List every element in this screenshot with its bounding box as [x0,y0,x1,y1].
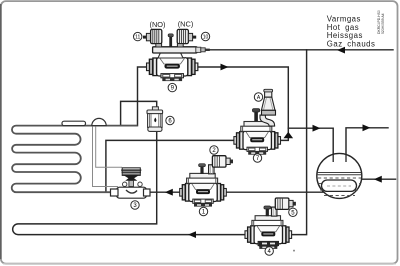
main valve 1 (with EVM pilot 2) [180,156,233,207]
valve 7 stem [254,111,258,121]
ref 5 [289,208,297,216]
wire: junction to tank top-left inlet [288,128,333,162]
arrow: valve 7 outlet up [284,132,294,138]
svg-text:(NC): (NC) [178,19,194,28]
wire: tank right-side inlet from right edge [357,178,396,180]
TEV 3 right flange [144,189,151,196]
arrow: to tank inlet right [313,125,321,132]
wire: hot gas supply line (top, right edge to valve 9 pilot fitting) [210,49,394,51]
wire: tank second top pipe up and right to edge (suction out) [346,128,388,162]
ref 3 [131,201,139,209]
TEV 3 left flange [111,189,119,196]
liquid level lines [317,173,361,175]
valve 9 neck [158,53,183,58]
svg-text:10: 10 [203,35,209,41]
U-tube heat exchanger inside tank [322,180,357,191]
filter sight glass dot [154,118,156,123]
CVP pilot on valve 7 [260,89,276,126]
arrow: suction out right (top of tank) [363,124,371,131]
ref 4 [265,247,273,255]
solenoid pilot 11 (NO) [143,29,162,47]
evaporator coil serpentine [12,126,138,193]
svg-text:520H0559 A4: 520H0559 A4 [381,13,385,34]
ref 1 [199,207,207,215]
ref 2 [210,146,218,154]
TEV 3 thermostatic head (striped) [121,168,141,176]
equalizer line to TEV body (grey) [93,126,119,187]
valve 4 dark bottom [259,241,278,247]
arrow: TEV feed pointing left [165,189,173,196]
ref 10 [201,32,209,40]
wire: hot gas branch down to valve 4 (vertical x=306.6) [290,50,307,235]
wire: valve 9 outlet right then down to junction [194,67,289,128]
wire: branch from suction line up over to filter 6 top [121,101,157,125]
solenoid pilot 10 (NC) [177,29,196,47]
wire: valve 7 left port line going left then down to coil feed line [106,140,235,192]
ref 7 [253,154,261,162]
wire: TEV 3 outlet line to valve 1 left port [148,191,180,193]
ref 11 [134,32,142,40]
ref 9 [168,83,176,91]
scan speck artifact [293,250,295,252]
TEV 3 body [117,187,147,198]
arrow: hot gas flow left (top right) [337,47,345,54]
main valve 9 (hot gas valve with twin pilots) [143,29,210,81]
tank vessel circle [317,153,362,198]
svg-text:11: 11 [135,35,140,41]
valve 9 center stem [169,36,172,46]
sensor bulb dome on suction line [92,118,106,125]
svg-text:Gaz chauds: Gaz chauds [327,39,376,48]
filter F6 body [152,107,158,111]
arrow: suction return pointing left (bottom line) [188,231,196,238]
arrow: tank right inlet pointing left [374,176,382,183]
svg-text:(NO): (NO) [149,20,165,29]
arrow: valve 9 outlet right [221,64,229,71]
drawing number (vertical tiny text) [377,10,385,34]
ref A [254,93,262,101]
wire: valve 7 outlet up to junction [280,128,288,140]
valve 9 external pilot fitting [196,47,201,52]
cap fitting on suction line [62,121,86,125]
tank top pipes inside [333,154,346,162]
capillary line to TEV head (grey) [96,126,122,167]
liquid dashes [318,178,361,196]
valve 9 pilot manifold bar [153,47,197,53]
wire: suction line from coil up to valve 9 left port [121,67,147,126]
wire: valve 1 outlet right into tank U-tube [226,191,325,193]
main valve 4 (with EVM pilot 5) [245,198,296,249]
wire: filter 6 bottom down, left, U-turn at far left, back right to valve 4 [13,131,247,235]
TEV 3 bowtie diaphragm [124,175,139,180]
main valve 7 (with CVP pilot A) [234,89,281,154]
ref 6 [166,116,174,124]
TEV 3 stem and side ports [129,181,134,187]
